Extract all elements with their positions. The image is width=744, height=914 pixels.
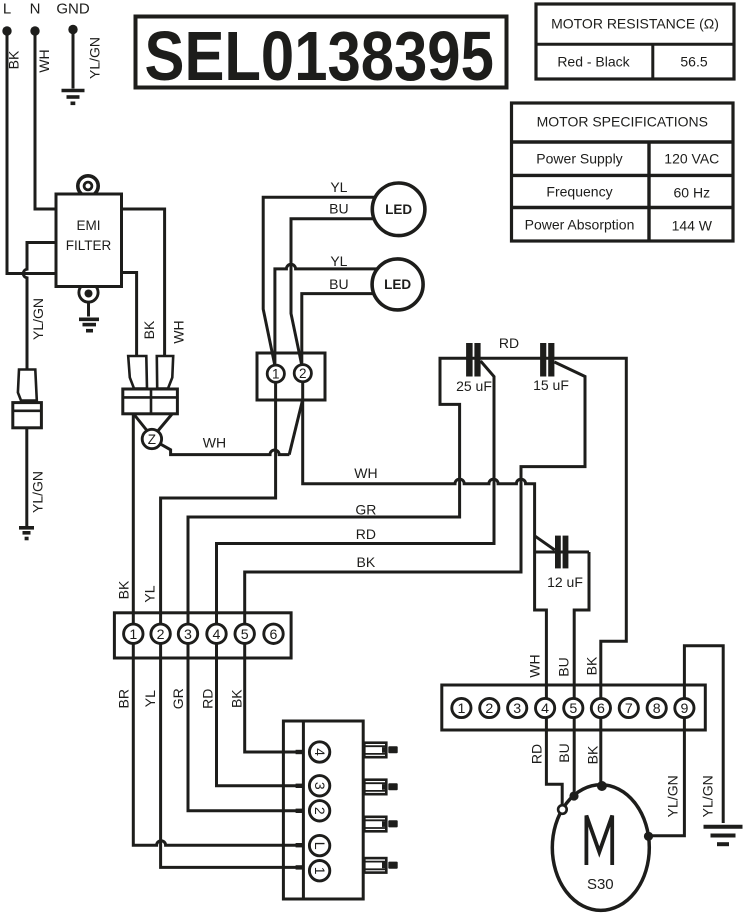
svg-text:YL: YL — [330, 179, 347, 195]
svg-text:BK: BK — [583, 656, 599, 675]
wire EMI earth route with hop over L wire — [23, 243, 56, 370]
svg-text:L: L — [3, 1, 11, 18]
connector 4-pin output block — [283, 721, 363, 899]
svg-text:3: 3 — [184, 627, 192, 643]
svg-text:2: 2 — [299, 366, 307, 381]
wire WH net: terminal 2 down, long WH line with 3 hops, to 12uF and pin 4 — [303, 382, 547, 708]
wire WH from Z plug with hop — [160, 444, 290, 455]
node motor RD terminal — [558, 805, 567, 814]
svg-text:12 uF: 12 uF — [547, 574, 583, 590]
svg-text:LED: LED — [384, 277, 411, 292]
svg-text:BK: BK — [141, 320, 157, 339]
label SEL0138395 box — [136, 17, 507, 96]
svg-text:BK: BK — [357, 554, 376, 570]
ground EMI filter — [79, 319, 99, 330]
svg-text:BU: BU — [556, 657, 572, 676]
EMI filter U1 — [56, 176, 122, 302]
node GND terminal dot — [68, 25, 77, 34]
svg-text:YL/GN: YL/GN — [30, 471, 46, 513]
svg-text:1: 1 — [312, 867, 328, 875]
svg-text:WH: WH — [36, 49, 52, 72]
pin tick 1 — [296, 865, 304, 869]
svg-text:GR: GR — [355, 501, 376, 517]
svg-text:WH: WH — [171, 320, 187, 343]
svg-text:SEL0138395: SEL0138395 — [145, 17, 494, 95]
svg-text:144 W: 144 W — [672, 218, 713, 234]
wire N input — [35, 31, 56, 209]
wire EMI WH output — [122, 209, 165, 356]
node motor BK terminal — [597, 781, 607, 791]
wire pin 9 to motor YL/GN — [651, 708, 684, 836]
svg-text:MOTOR RESISTANCE (Ω): MOTOR RESISTANCE (Ω) — [551, 16, 719, 32]
svg-text:7: 7 — [625, 701, 633, 717]
wire strip 5 to connector 4 — [245, 634, 297, 752]
svg-text:BK: BK — [584, 745, 600, 764]
svg-text:BU: BU — [329, 201, 348, 217]
svg-text:YL: YL — [142, 690, 158, 707]
svg-text:WH: WH — [527, 654, 543, 677]
svg-text:BU: BU — [329, 276, 348, 292]
connector faston plugs — [364, 743, 397, 873]
svg-text:Frequency: Frequency — [546, 184, 612, 200]
node L terminal dot — [2, 26, 11, 35]
svg-text:6: 6 — [270, 627, 278, 643]
capacitor C2 15uF plates — [540, 343, 546, 377]
wire GND input — [72, 30, 75, 89]
node N terminal dot — [30, 26, 39, 35]
table MOTOR SPECIFICATIONS — [512, 103, 734, 241]
wire YL1 LED1 to connector terminal 1 — [263, 197, 385, 370]
node motor YL/GN terminal — [644, 832, 653, 841]
wire capacitor top bus and BK to pin 6 — [466, 358, 626, 708]
wire diagonal WH to 12uF left plate — [535, 536, 555, 550]
pin tick 2 — [296, 809, 304, 813]
svg-text:9: 9 — [680, 701, 688, 717]
wire RD net: strip 4 to 25uF right — [217, 361, 495, 634]
svg-text:GR: GR — [170, 688, 186, 709]
svg-text:YL: YL — [330, 253, 347, 269]
motor M — [552, 785, 649, 911]
svg-text:BK: BK — [115, 580, 131, 599]
svg-text:Power Supply: Power Supply — [536, 151, 622, 167]
svg-text:YL/GN: YL/GN — [664, 775, 680, 817]
svg-text:GND: GND — [56, 1, 90, 18]
wire pin 9 to right ground — [684, 646, 723, 823]
svg-text:1: 1 — [272, 366, 280, 381]
wire BK net: strip 5 to 15uF right — [245, 362, 585, 634]
svg-text:RD: RD — [200, 689, 216, 709]
svg-text:6: 6 — [597, 701, 605, 717]
svg-text:WH: WH — [354, 465, 377, 481]
svg-text:BU: BU — [556, 743, 572, 762]
svg-text:RD: RD — [528, 744, 544, 764]
svg-text:N: N — [30, 1, 41, 18]
wire BK pin 6 to motor — [599, 708, 602, 782]
svg-text:S30: S30 — [587, 876, 614, 893]
svg-text:YL/GN: YL/GN — [87, 37, 103, 79]
svg-text:4: 4 — [541, 701, 549, 717]
spade BK — [128, 356, 147, 389]
wire YL/GN to lower ground — [25, 428, 28, 526]
spade terminal — [18, 370, 37, 401]
svg-text:RD: RD — [356, 526, 376, 542]
connector LED 1-2 — [257, 353, 325, 400]
wire EMI ground lead — [87, 293, 90, 317]
svg-text:YL/GN: YL/GN — [700, 775, 716, 817]
terminal strip 1-9 — [442, 685, 706, 730]
svg-text:EMI: EMI — [76, 218, 100, 233]
svg-text:60 Hz: 60 Hz — [674, 185, 711, 201]
svg-text:RD: RD — [499, 335, 519, 351]
table MOTOR RESISTANCE — [536, 4, 734, 79]
plug body — [123, 389, 178, 414]
svg-text:FILTER: FILTER — [66, 238, 112, 253]
svg-text:120 VAC: 120 VAC — [664, 151, 719, 167]
svg-text:1: 1 — [457, 701, 465, 717]
connector BK/WH plug block — [123, 356, 178, 414]
wire strip 3 to connector 2 — [188, 634, 297, 811]
svg-text:3: 3 — [312, 782, 328, 790]
svg-text:2: 2 — [485, 701, 493, 717]
svg-text:15 uF: 15 uF — [533, 377, 569, 393]
svg-text:Red - Black: Red - Black — [557, 54, 630, 70]
pin tick 3 — [296, 784, 304, 788]
wire EMI BK output — [122, 273, 137, 357]
wire plug V legs to Z — [133, 414, 172, 433]
svg-text:2: 2 — [157, 627, 165, 643]
LED 2 — [372, 259, 423, 310]
svg-text:Z: Z — [148, 432, 156, 447]
svg-text:25 uF: 25 uF — [456, 378, 492, 394]
ground YL/GN lower left — [19, 528, 34, 539]
EMI bottom lug — [79, 283, 98, 302]
connector YL/GN inline splice — [13, 370, 42, 428]
wire YL2 LED2 to terminal 1 with hop — [275, 264, 385, 370]
LED 1 — [372, 183, 425, 236]
wire strip 4 to connector 3 — [217, 634, 298, 786]
node Z — [142, 429, 161, 448]
svg-text:WH: WH — [203, 435, 226, 451]
wire GR net: strip 3 to 25uF left — [188, 358, 467, 634]
wire L input — [7, 31, 56, 274]
wire BU pin 5 to motor — [573, 708, 576, 792]
svg-text:4: 4 — [213, 627, 221, 643]
svg-text:5: 5 — [569, 701, 577, 717]
wire BK from plug down through strip terminal 1 to connector L with hop — [133, 414, 297, 846]
node motor BU terminal — [569, 791, 578, 800]
svg-text:YL/GN: YL/GN — [30, 298, 46, 340]
svg-text:56.5: 56.5 — [680, 54, 707, 70]
svg-text:BR: BR — [115, 689, 131, 708]
ground bottom right — [704, 827, 743, 844]
svg-text:2: 2 — [312, 807, 328, 815]
svg-text:BK: BK — [228, 689, 244, 708]
capacitor C3 12uF plates — [555, 536, 561, 569]
ground GND input — [62, 91, 85, 104]
svg-text:Power Absorption: Power Absorption — [525, 217, 635, 233]
EMI top mounting lug — [78, 176, 98, 196]
svg-text:L: L — [312, 842, 328, 850]
svg-text:YL: YL — [142, 585, 158, 602]
wire BU2 LED2 to terminal 2 — [302, 294, 385, 370]
svg-text:LED: LED — [385, 202, 412, 217]
svg-text:8: 8 — [653, 701, 661, 717]
svg-text:3: 3 — [513, 701, 521, 717]
pin tick 4 — [296, 750, 304, 754]
wire RD pin 4 to motor — [546, 708, 562, 806]
capacitor C1 25uF plates — [466, 343, 473, 377]
wire YL net: terminal 1 down to strip terminal 2 and connector 1 — [161, 382, 297, 867]
splice body — [13, 403, 42, 428]
wire diagonal from connector terminal 2 to WH — [289, 400, 303, 455]
svg-text:1: 1 — [129, 627, 137, 643]
wire BU1 LED1 to terminal 2 — [291, 219, 385, 370]
wire 12uF right side down to pin 5 — [574, 552, 589, 708]
svg-text:4: 4 — [312, 748, 328, 756]
terminal strip 1-6 — [114, 613, 291, 658]
svg-text:5: 5 — [241, 627, 249, 643]
spade WH — [157, 356, 173, 389]
pin tick L — [296, 843, 304, 847]
svg-text:MOTOR SPECIFICATIONS: MOTOR SPECIFICATIONS — [537, 114, 708, 130]
wire 12uF top edge — [535, 551, 589, 554]
svg-text:BK: BK — [6, 50, 22, 69]
